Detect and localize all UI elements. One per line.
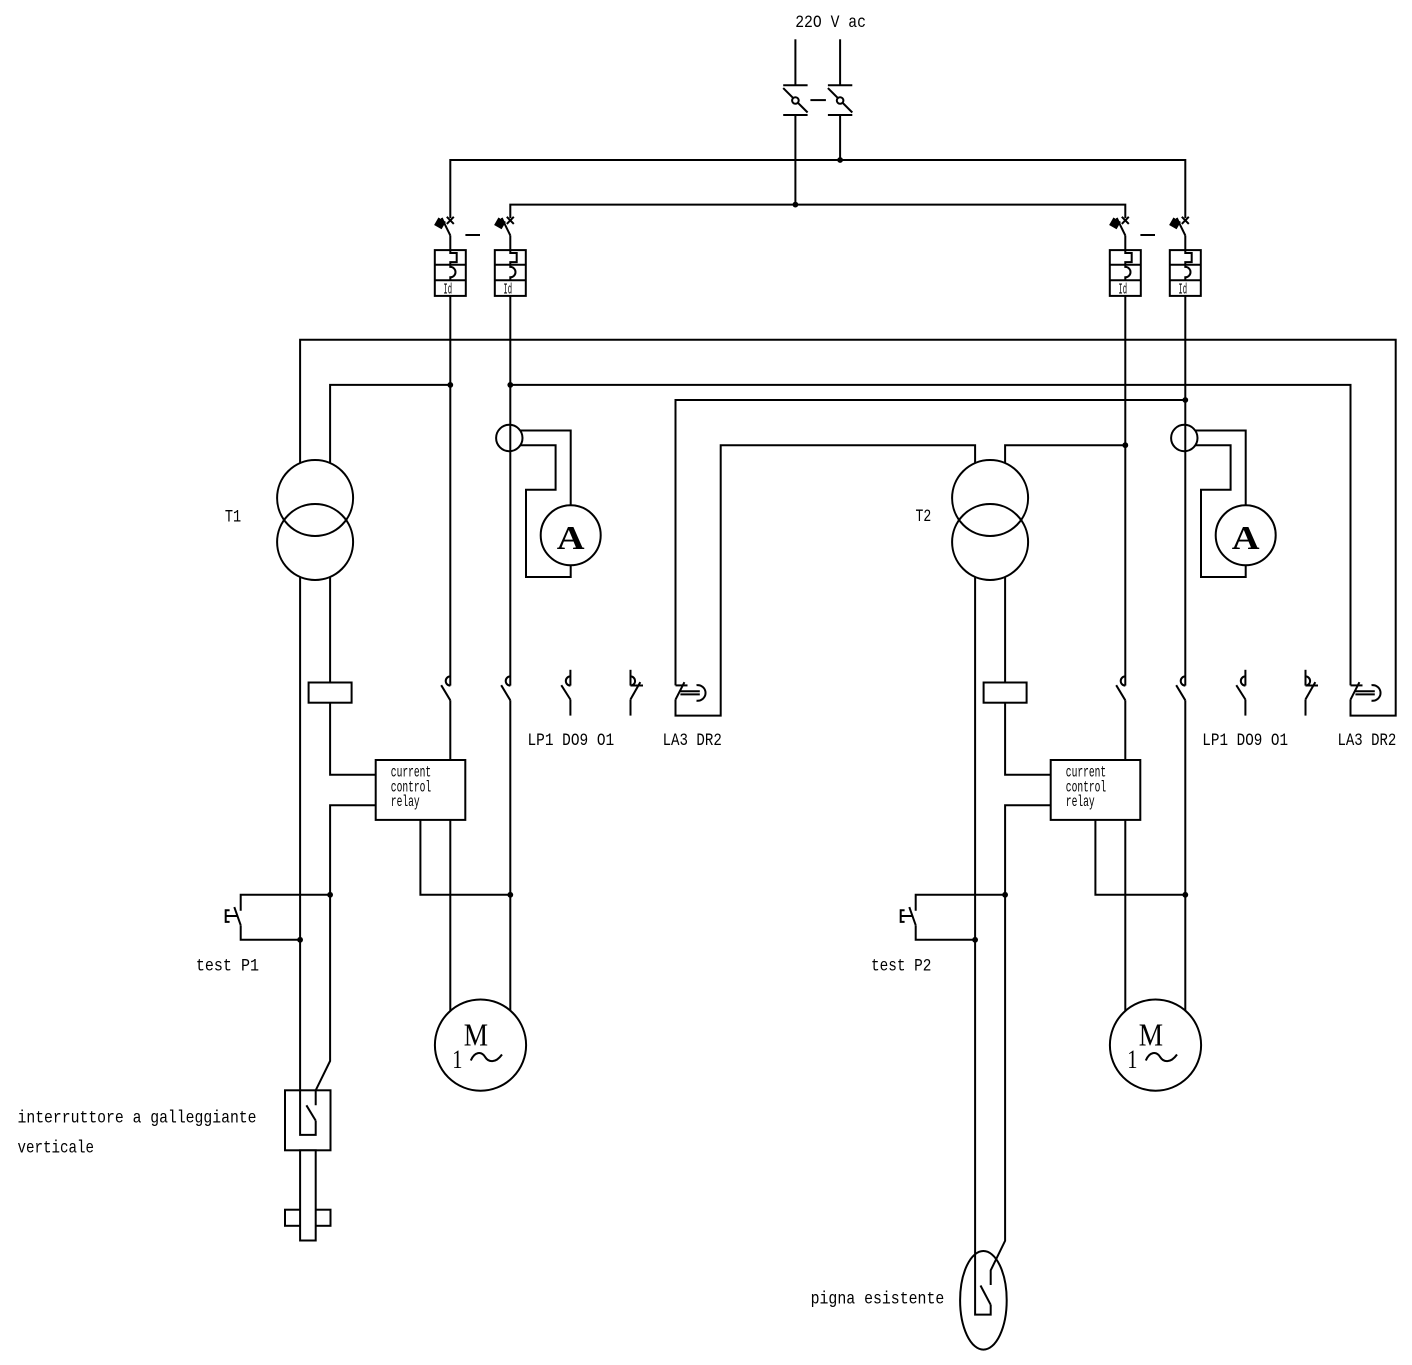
svg-text:pigna esistente: pigna esistente: [811, 1289, 945, 1309]
svg-text:verticale: verticale: [18, 1139, 95, 1159]
svg-text:Id: Id: [443, 281, 452, 298]
svg-text:LA3 DR2: LA3 DR2: [1338, 731, 1397, 751]
svg-text:T1: T1: [225, 507, 241, 527]
svg-text:Id: Id: [1118, 281, 1127, 298]
svg-text:1: 1: [452, 1045, 462, 1074]
svg-text:test P2: test P2: [871, 957, 931, 977]
svg-text:M: M: [1139, 1017, 1163, 1053]
svg-text:LP1 DO9 O1: LP1 DO9 O1: [528, 731, 615, 751]
svg-text:test P1: test P1: [196, 957, 259, 977]
svg-text:Id: Id: [1178, 281, 1187, 298]
svg-text:LP1 DO9 O1: LP1 DO9 O1: [1202, 731, 1288, 751]
svg-text:A: A: [557, 520, 585, 557]
svg-text:relay: relay: [1066, 793, 1095, 811]
svg-text:T2: T2: [916, 507, 932, 527]
svg-text:interruttore a galleggiante: interruttore a galleggiante: [18, 1108, 257, 1128]
svg-text:relay: relay: [391, 793, 420, 811]
svg-text:22O V ac: 22O V ac: [795, 13, 866, 33]
svg-text:1: 1: [1127, 1045, 1137, 1074]
svg-text:LA3 DR2: LA3 DR2: [663, 731, 722, 751]
svg-text:M: M: [464, 1017, 488, 1053]
svg-text:Id: Id: [503, 281, 512, 298]
svg-text:A: A: [1232, 520, 1260, 557]
